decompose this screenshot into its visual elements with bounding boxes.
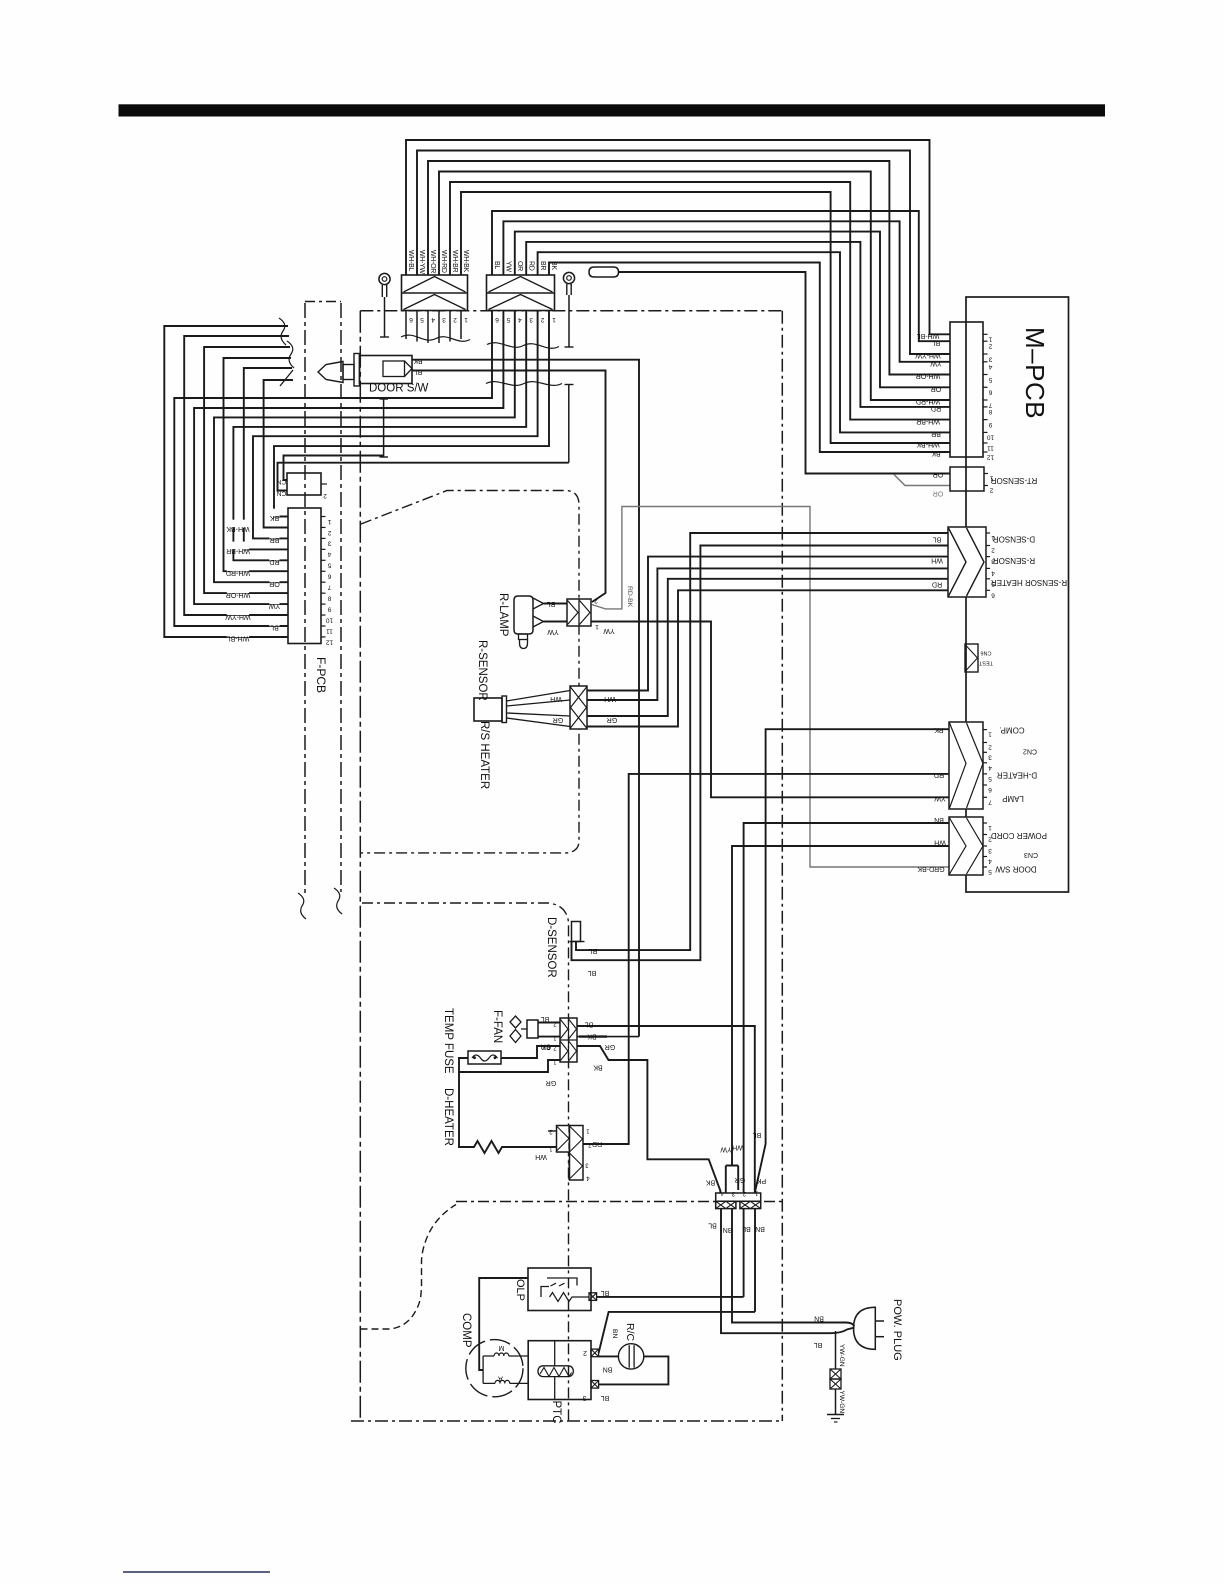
label BL at fan xyxy=(541,1015,550,1022)
svg-text:BL: BL xyxy=(753,1131,762,1138)
label GR on fan-conn wire xyxy=(605,1043,616,1050)
CN-PWR2 pin ticks xyxy=(983,823,987,867)
svg-text:YW: YW xyxy=(268,602,280,609)
CN-PWR1 pin number 1 xyxy=(988,731,992,738)
svg-text:M–PCB: M–PCB xyxy=(1020,327,1050,419)
svg-text:WH-BR: WH-BR xyxy=(226,547,250,554)
M-PCB CN1 pin number 5 xyxy=(988,376,992,383)
svg-text:RD: RD xyxy=(931,405,941,412)
label RT-SENSOR xyxy=(991,476,1038,485)
heater D-HEATER resistor xyxy=(459,1072,557,1153)
svg-text:6: 6 xyxy=(991,591,995,598)
M-PCB CN1 pin number 1 xyxy=(988,336,992,343)
label YW at lamp xyxy=(547,628,559,635)
wire WH-OR (F-PCB pin8 toward CON-A, broken) xyxy=(204,347,290,593)
label RD at M-PCB D-HEATER pin xyxy=(934,771,944,778)
svg-text:BN: BN xyxy=(934,816,944,823)
svg-text:YW: YW xyxy=(720,1146,732,1153)
label PK above bottom connector xyxy=(757,1177,767,1184)
label RD at M-PCB pin8 xyxy=(931,405,941,412)
label OR at CON-B xyxy=(516,261,523,271)
svg-text:OR: OR xyxy=(516,261,523,271)
wire (CN-RS pin3 to M-PCB) xyxy=(587,579,948,716)
label WH-BK at CON-A xyxy=(462,250,469,272)
wire GR-BK (CN-FAN to bottom connector pin4) xyxy=(577,1046,720,1193)
connector M-PCB TEST xyxy=(965,644,978,672)
label OR at F-PCB pin7 xyxy=(269,574,280,587)
svg-text:F-PCB: F-PCB xyxy=(314,657,328,693)
M-PCB CN1 pin number 8 xyxy=(988,408,992,415)
CN-PWR1 pin number 5 xyxy=(988,775,992,782)
label WH-YW at M-PCB pin3 xyxy=(915,352,941,359)
label GR at loop wire xyxy=(546,1079,557,1086)
svg-text:OLP: OLP xyxy=(514,1279,526,1301)
CN-LAMP pin number 1 xyxy=(595,623,599,630)
svg-text:POWER CORD: POWER CORD xyxy=(991,831,1047,840)
svg-text:LAMP: LAMP xyxy=(1002,794,1024,803)
label GR left of CN-RS xyxy=(553,716,564,723)
svg-text:5: 5 xyxy=(988,868,992,875)
cabinet outline left edge xyxy=(359,311,361,1421)
wire BL (lamp to CN-LAMP) xyxy=(544,603,568,605)
svg-text:YW: YW xyxy=(547,628,559,635)
wire BL (door switch to R-LAMP connector) xyxy=(412,371,606,603)
wire BK (CON-B pin1 to M-PCB pin12) xyxy=(549,263,950,453)
label BN at plug xyxy=(814,1315,824,1322)
F-PCB strip top cap xyxy=(305,301,341,303)
svg-text:3: 3 xyxy=(988,355,992,362)
label RD at F-PCB pin5 xyxy=(269,553,279,566)
label BR at M-PCB pin10 xyxy=(931,430,941,437)
CN-PWR2 pin number 2 xyxy=(988,836,992,843)
M-PCB CN1 pin number 11 xyxy=(987,444,994,451)
svg-text:10: 10 xyxy=(987,434,995,441)
svg-text:BK: BK xyxy=(270,514,280,521)
label BL below CN-MACH xyxy=(708,1222,717,1229)
svg-text:BK: BK xyxy=(413,357,423,364)
CN-FAN pin numbers xyxy=(553,1021,557,1065)
svg-text:BL: BL xyxy=(585,1021,594,1028)
svg-text:BN: BN xyxy=(611,1329,618,1339)
wire CN2 pin2 to right ring tail xyxy=(278,463,569,491)
wire YW (F-PCB pin9 to CON-B) xyxy=(194,311,503,605)
svg-text:YW: YW xyxy=(603,627,615,634)
CON-B pin number 6 xyxy=(495,316,499,323)
svg-text:6: 6 xyxy=(409,316,413,323)
wire WH-RD (CON-A pin3 to M-PCB pin7) xyxy=(439,172,950,401)
svg-text:BK: BK xyxy=(550,261,557,270)
CON-A pin number 4 xyxy=(431,316,435,323)
svg-text:1: 1 xyxy=(595,623,599,630)
label BN below CN-MACH xyxy=(723,1226,733,1233)
connector CN-DH (2+4 pin) xyxy=(557,1126,584,1181)
label WH right of CN-RS xyxy=(604,695,616,702)
connector F-PCB CN2 (2 pin) xyxy=(287,473,327,495)
svg-text:6: 6 xyxy=(327,573,331,580)
wire BN (bottom connector to plug) xyxy=(732,1209,855,1326)
label BN below CN-MACH 2 xyxy=(755,1225,765,1232)
svg-text:BK: BK xyxy=(587,1033,597,1040)
wire BL (OLP to bottom connector pin via x744) xyxy=(597,1209,744,1297)
svg-text:RD-BK: RD-BK xyxy=(626,586,633,608)
wire BK (door switch to fan connector) xyxy=(412,360,639,1037)
svg-text:1: 1 xyxy=(464,316,468,323)
wire WH-RD (F-PCB pin6 toward CON-A, broken) xyxy=(224,358,292,571)
label R-SENSOR xyxy=(476,640,488,701)
label BL at M-PCB pin2 xyxy=(932,339,941,346)
svg-text:WH-OR: WH-OR xyxy=(429,250,436,273)
M-PCB CN1 pin number 9 xyxy=(988,421,992,428)
svg-text:7: 7 xyxy=(988,798,992,805)
CN-PWR1 pin number 3 xyxy=(988,753,992,760)
wire BL (F-PCB pin11 to CON-B) xyxy=(174,311,492,627)
svg-text:DOOR S/W: DOOR S/W xyxy=(995,865,1037,874)
svg-text:BL: BL xyxy=(414,368,423,375)
footer rule xyxy=(123,1571,270,1573)
svg-text:BL: BL xyxy=(814,1341,823,1348)
F-PCB label xyxy=(314,657,328,693)
wire BK (fan to CN-FAN) xyxy=(538,1036,560,1038)
label BK on corner wire xyxy=(593,1064,603,1071)
svg-text:WH-BR: WH-BR xyxy=(916,417,940,424)
cabinet outline right edge xyxy=(781,311,783,1421)
F-PCB pin number 4 xyxy=(327,551,331,558)
label COMP. at M-PCB xyxy=(999,726,1024,735)
compressor compartment contour xyxy=(361,1205,457,1330)
wire BL (CON-B pin6 to M-PCB pin2) xyxy=(492,211,950,341)
label BL at CN-SENS xyxy=(933,536,942,543)
label WH above bottom connector xyxy=(732,1144,744,1151)
CN-SENS pin number 4 xyxy=(991,569,995,576)
R-sensor leads xyxy=(507,691,571,727)
label BK at door switch xyxy=(413,357,423,364)
device PTC box xyxy=(528,1341,591,1400)
label R-SENSOR at M-PCB xyxy=(993,556,1035,565)
svg-text:WH-OR: WH-OR xyxy=(916,372,941,379)
CN-SENS pin number 2 xyxy=(991,547,995,554)
svg-text:BK: BK xyxy=(706,1179,716,1186)
svg-text:COMP: COMP xyxy=(460,1313,472,1348)
svg-text:RD: RD xyxy=(932,580,942,587)
svg-text:BL: BL xyxy=(933,536,942,543)
COMP winding link xyxy=(482,1356,484,1383)
label D-HEATER xyxy=(442,1088,454,1146)
svg-text:3: 3 xyxy=(582,1394,586,1401)
svg-text:5: 5 xyxy=(506,316,510,323)
svg-text:2: 2 xyxy=(540,316,544,323)
svg-text:12: 12 xyxy=(987,453,995,460)
ring terminal right tail xyxy=(565,385,574,463)
F-PCB pin number 1 xyxy=(327,518,331,525)
svg-text:5: 5 xyxy=(988,376,992,383)
label RD at CN-DH xyxy=(592,1140,602,1147)
svg-text:6: 6 xyxy=(988,389,992,396)
svg-text:2: 2 xyxy=(583,1349,587,1356)
OLP terminal xyxy=(589,1293,597,1301)
label CN at CN2 pin2 xyxy=(277,490,287,497)
svg-text:2: 2 xyxy=(988,343,992,350)
svg-text:BN: BN xyxy=(603,1365,613,1372)
M-PCB label xyxy=(1020,327,1050,419)
svg-text:BN: BN xyxy=(755,1225,765,1232)
label BN diag xyxy=(611,1329,618,1339)
M-PCB CN1 pin number 7 xyxy=(988,401,992,408)
CN-PWR1 pin number 6 xyxy=(988,786,992,793)
CON-A pin number 3 xyxy=(442,316,446,323)
label BL below CN-MACH 2 xyxy=(742,1225,751,1232)
svg-text:3: 3 xyxy=(327,540,331,547)
evaporator area dash-dot xyxy=(361,491,579,853)
F-PCB pin number 8 xyxy=(327,594,331,601)
label YW above bottom connector xyxy=(720,1146,732,1153)
capacitor R/C xyxy=(618,1344,643,1369)
label PTC xyxy=(550,1401,562,1424)
CON-A pin number 6 xyxy=(409,316,413,323)
svg-text:WH-RD: WH-RD xyxy=(916,398,940,405)
svg-text:4: 4 xyxy=(518,316,522,323)
svg-text:BR: BR xyxy=(931,430,941,437)
CON-A cable stubs xyxy=(406,311,461,344)
svg-text:CN6: CN6 xyxy=(980,650,991,656)
wire BN (M-PCB power to bottom connector pin2) xyxy=(744,823,949,1193)
CN-DH pin2 stub xyxy=(548,1130,557,1132)
svg-text:YW-GN: YW-GN xyxy=(838,1391,845,1414)
svg-text:WH: WH xyxy=(732,1144,744,1151)
svg-text:4: 4 xyxy=(991,569,995,576)
svg-text:TEST: TEST xyxy=(978,660,993,666)
CN-PWR1 pin number 7 xyxy=(988,798,992,805)
label CN6 xyxy=(980,650,991,656)
label GR above bottom connector xyxy=(735,1176,746,1183)
label WH-RD at CON-A xyxy=(440,250,447,273)
connector CN-MACH (4 pin) xyxy=(716,1193,761,1209)
svg-text:BN: BN xyxy=(814,1315,824,1322)
svg-text:3: 3 xyxy=(442,316,446,323)
svg-text:12: 12 xyxy=(326,638,334,645)
CN-MACH pin numbers top xyxy=(720,1190,758,1197)
label F-FAN xyxy=(491,1010,503,1043)
wire PK (M-PCB COMP to bottom connector pin1) xyxy=(755,729,949,1193)
svg-text:WH-BK: WH-BK xyxy=(916,441,940,448)
label COMP xyxy=(460,1313,472,1348)
svg-text:2: 2 xyxy=(988,744,992,751)
label BN at RC wire xyxy=(603,1365,613,1372)
label R/S HEATER xyxy=(478,721,490,789)
svg-text:6: 6 xyxy=(495,316,499,323)
M-PCB CN1 pin number 3 xyxy=(988,355,992,362)
protector OLP xyxy=(528,1268,591,1311)
svg-text:TEMP FUSE: TEMP FUSE xyxy=(442,1008,454,1074)
label WH left of CN-RS xyxy=(550,695,562,702)
CN-DH right pin numbers xyxy=(585,1128,592,1181)
svg-text:OR: OR xyxy=(933,490,944,497)
connector ground (2 pole) xyxy=(830,1369,841,1389)
fuse TEMP FUSE xyxy=(468,1051,501,1064)
F-PCB board strip left line xyxy=(304,303,306,897)
M-PCB CN1 pin number 6 xyxy=(988,389,992,396)
label WH at CN-SENS xyxy=(931,556,943,563)
compartment divider xyxy=(362,903,569,1421)
CON-B cable wavy mark 2 xyxy=(486,382,562,386)
svg-text:PK: PK xyxy=(757,1177,767,1184)
RT conn pin number 2 xyxy=(989,487,993,494)
label WH-OR at CON-A xyxy=(429,250,436,273)
connector F-PCB CN1 (12 pin) xyxy=(288,508,326,644)
CON-A pin number 5 xyxy=(420,316,424,323)
svg-text:WH-BK: WH-BK xyxy=(226,525,250,532)
wire OLP to COMP M-winding xyxy=(479,1278,528,1370)
svg-text:3: 3 xyxy=(529,316,533,323)
machine room dash-dot line xyxy=(456,1201,782,1203)
svg-text:WH-BK: WH-BK xyxy=(462,250,469,272)
label RD-BK xyxy=(626,586,633,608)
svg-text:WH-BL: WH-BL xyxy=(917,332,940,339)
F-PCB pin number 10 xyxy=(326,616,334,623)
label BL at PTC pin3 xyxy=(601,1394,610,1401)
svg-text:M: M xyxy=(498,1344,504,1351)
label WH-OR at F-PCB pin8 xyxy=(226,585,251,597)
label BR at F-PCB pin3 xyxy=(269,531,279,544)
CON-A pin number 2 xyxy=(453,316,457,323)
CON-B pin number 2 xyxy=(540,316,544,323)
CN-SENS pin number 5 xyxy=(991,580,995,587)
CN2 pin number 2 xyxy=(323,492,327,499)
label YW at M-PCB LAMP pin xyxy=(934,795,946,802)
svg-text:RD: RD xyxy=(527,261,534,271)
label GRD-BK at power cord pin3 xyxy=(917,865,945,872)
svg-text:GR: GR xyxy=(607,716,618,723)
connector CN-LAMP (2 pin) xyxy=(567,599,591,626)
svg-text:BL: BL xyxy=(589,947,598,954)
svg-text:11: 11 xyxy=(987,444,994,451)
harness break mark 2 xyxy=(280,370,293,386)
svg-text:WH: WH xyxy=(931,556,943,563)
label BN at power cord pin xyxy=(934,816,944,823)
CN-PWR1 pin ticks xyxy=(983,730,987,798)
label BK at M-PCB pin12 xyxy=(931,450,941,457)
svg-text:WH-BL: WH-BL xyxy=(407,250,414,271)
label CN2 at M-PCB xyxy=(1023,748,1037,755)
label YW-GN upper xyxy=(838,1344,845,1367)
wire fuse right to CN-FAN lower xyxy=(501,1046,560,1058)
svg-text:8: 8 xyxy=(988,408,992,415)
CN-PWR2 pin number 5 xyxy=(988,868,992,875)
ring terminal left tail xyxy=(380,399,389,457)
svg-text:2: 2 xyxy=(453,316,457,323)
svg-text:PTC: PTC xyxy=(550,1401,562,1424)
wire (CN-RS pin4 to M-PCB heater) xyxy=(587,590,948,726)
label OR at M-PCB pin6 xyxy=(931,385,942,392)
label BL at lamp xyxy=(547,600,556,607)
label BL at CON-B xyxy=(493,261,500,269)
F-PCB pin number 7 xyxy=(327,584,331,591)
wire BN (PTC pin2 to RC) xyxy=(599,1355,619,1357)
F-PCB pin number 5 xyxy=(327,562,331,569)
svg-text:4: 4 xyxy=(988,363,992,370)
label D-HEATER at M-PCB xyxy=(997,771,1038,780)
svg-text:1: 1 xyxy=(988,731,992,738)
svg-text:OR: OR xyxy=(931,385,942,392)
svg-text:BK: BK xyxy=(593,1064,603,1071)
wire WH-BK (F-PCB pin2 toward CON-A, broken) xyxy=(264,380,293,528)
label WH-BR at M-PCB pin9 xyxy=(916,417,940,424)
wire WH-BK (CON-A pin1 to M-PCB pin11) xyxy=(461,192,950,443)
svg-text:WH-YW: WH-YW xyxy=(915,352,941,359)
label LAMP at M-PCB xyxy=(1002,794,1024,803)
wire YW-GN (ground drop) xyxy=(835,1331,837,1369)
connector M-PCB RT-SENSOR (2 pin) xyxy=(950,467,988,491)
CN-SENS pin ticks xyxy=(986,533,990,590)
label BL at F-PCB pin11 xyxy=(269,618,279,631)
svg-text:POW. PLUG: POW. PLUG xyxy=(891,1299,903,1361)
ground symbol xyxy=(827,1415,844,1423)
label BL above bottom connector xyxy=(753,1131,762,1138)
label BK above bottom connector xyxy=(706,1179,716,1186)
svg-text:YW: YW xyxy=(930,360,942,367)
PTC pin number 2 xyxy=(583,1349,587,1356)
wire WH-BR (CON-A pin2 to M-PCB pin9) xyxy=(450,182,950,420)
svg-text:5: 5 xyxy=(420,316,424,323)
svg-text:D-SENSOR: D-SENSOR xyxy=(993,535,1035,544)
label BL at D-sensor lead2 xyxy=(588,969,597,976)
svg-text:BR: BR xyxy=(270,536,280,543)
PTC terminal 2 xyxy=(591,1349,599,1357)
svg-text:9: 9 xyxy=(988,421,992,428)
svg-text:D-HEATER: D-HEATER xyxy=(997,771,1038,780)
svg-text:YW-GN: YW-GN xyxy=(838,1344,845,1367)
RT-sensor bulb xyxy=(589,267,619,277)
CN-PWR1 pin number 2 xyxy=(988,744,992,751)
wire OR (RT-sensor to CN-RT pin2) xyxy=(894,475,950,486)
wire BR (F-PCB pin3 to CON-B) xyxy=(253,311,538,539)
label WH-YW at F-PCB pin10 xyxy=(225,607,251,620)
svg-text:2: 2 xyxy=(327,529,331,536)
svg-text:BK: BK xyxy=(931,450,941,457)
ring terminal left xyxy=(379,273,390,337)
COMP A winding xyxy=(483,1375,528,1384)
CN-LAMP pin number 2 xyxy=(594,597,598,604)
svg-text:WH-RD: WH-RD xyxy=(226,569,250,576)
plug POW. PLUG xyxy=(854,1307,885,1349)
svg-text:2: 2 xyxy=(594,597,598,604)
svg-text:10: 10 xyxy=(326,616,334,623)
svg-text:BL: BL xyxy=(588,969,597,976)
F-PCB pin number 2 xyxy=(327,529,331,536)
svg-text:4: 4 xyxy=(988,858,992,865)
wire YW (CON-B pin5 to M-PCB pin4) xyxy=(503,221,950,361)
harness break mark xyxy=(279,318,294,368)
wire WH-BL (CON-A pin6 to M-PCB pin1) xyxy=(406,140,950,334)
svg-text:WH: WH xyxy=(535,1153,547,1160)
svg-text:WH: WH xyxy=(934,839,946,846)
label WH-BL at M-PCB pin1 xyxy=(917,332,940,339)
svg-text:5: 5 xyxy=(988,775,992,782)
svg-text:GR: GR xyxy=(605,1043,616,1050)
label WH at power cord pin xyxy=(934,839,946,846)
svg-text:D-HEATER: D-HEATER xyxy=(442,1088,454,1146)
connector CON-B (6 pin) xyxy=(487,275,555,311)
wire BL (CN-FAN to bottom connector pin3) xyxy=(577,1026,755,1193)
svg-text:WH-RD: WH-RD xyxy=(440,250,447,273)
label WH-BR at F-PCB pin4 xyxy=(226,542,250,554)
svg-text:OR: OR xyxy=(269,580,280,587)
CON-B pin number 5 xyxy=(506,316,510,323)
wire CN2 pin1 to left ring tail xyxy=(284,456,384,481)
wire YW-GN lower xyxy=(835,1389,837,1415)
label YW on lamp wire xyxy=(603,627,615,634)
F-PCB pin number 9 xyxy=(327,605,331,612)
CN-PWR2 pin number 3 xyxy=(988,847,992,854)
